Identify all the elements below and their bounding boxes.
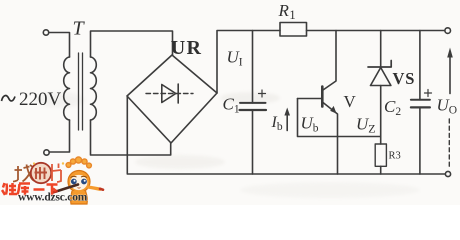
svg-text:C2: C2 (384, 97, 401, 118)
svg-text:Ub: Ub (301, 114, 319, 135)
svg-text:UO: UO (437, 96, 458, 117)
svg-text:www.dzsc.com: www.dzsc.com (18, 192, 88, 204)
svg-text:UR: UR (171, 37, 202, 59)
svg-text:V: V (344, 92, 357, 111)
svg-text:UZ: UZ (356, 115, 376, 136)
svg-text:R1: R1 (278, 1, 296, 22)
svg-text:220V: 220V (19, 89, 62, 110)
svg-text:R3: R3 (389, 151, 401, 162)
svg-text:VS: VS (393, 69, 416, 88)
svg-text:T: T (73, 18, 86, 40)
svg-text:Ib: Ib (271, 114, 283, 133)
svg-text:UI: UI (227, 48, 243, 69)
